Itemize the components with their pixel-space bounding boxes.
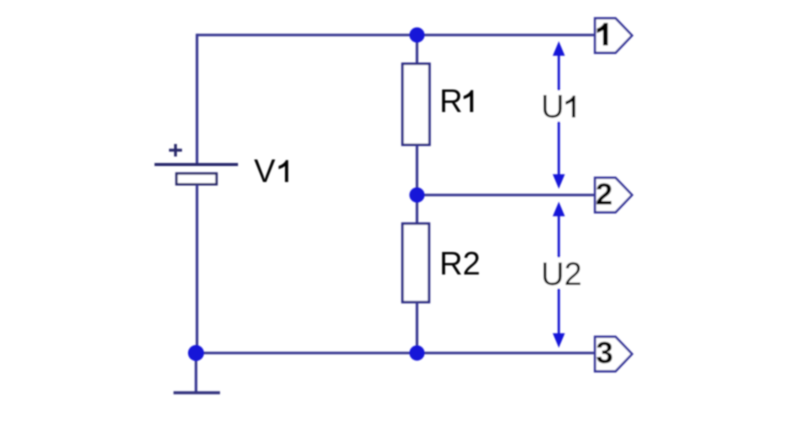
wire left vertical from top rail down to battery positive plate	[196, 34, 199, 164]
wire middle rail from node to terminal 2	[417, 194, 595, 197]
svg-text:R: R	[440, 83, 463, 119]
wire stub resistor R2 to bottom rail	[416, 302, 419, 353]
wire top rail from battery to terminal 1	[197, 34, 595, 37]
node junction middle	[409, 187, 424, 202]
pin number 3	[596, 335, 613, 370]
terminal 3	[595, 337, 632, 372]
node junction on top rail	[409, 27, 424, 42]
svg-text:2: 2	[596, 177, 613, 212]
node junction on bottom rail	[409, 345, 424, 360]
voltage arrow U2 (double headed, between node 2 and node 3)	[553, 202, 565, 348]
voltage arrow U1 (double headed, between node 1 and node 2)	[553, 41, 565, 188]
node junction at ground	[188, 345, 204, 361]
resistor R1	[403, 64, 430, 145]
label U1	[540, 89, 580, 125]
svg-text:3: 3	[596, 335, 613, 370]
wire stub resistor R1 to middle node	[416, 145, 419, 195]
wire bottom rail from ground node to terminal 3	[196, 352, 595, 355]
label R1	[440, 83, 474, 119]
label V1	[254, 153, 288, 189]
ground	[174, 353, 221, 393]
wire stub middle node to resistor R2	[416, 195, 419, 224]
wire stub top rail to resistor R1	[416, 35, 419, 64]
terminal 2	[595, 178, 632, 213]
label U2	[540, 256, 582, 292]
svg-text:R2: R2	[440, 246, 481, 282]
svg-text:V: V	[254, 153, 276, 189]
resistor R2	[403, 224, 430, 303]
svg-text:U: U	[541, 89, 564, 125]
pin number 2	[596, 177, 613, 212]
svg-text:U2: U2	[541, 256, 582, 292]
label R2	[440, 246, 481, 282]
pin number 1	[597, 23, 608, 46]
battery V1	[155, 144, 239, 184]
wire from battery negative plate down to bottom rail	[196, 185, 199, 354]
terminal 1	[595, 18, 632, 53]
